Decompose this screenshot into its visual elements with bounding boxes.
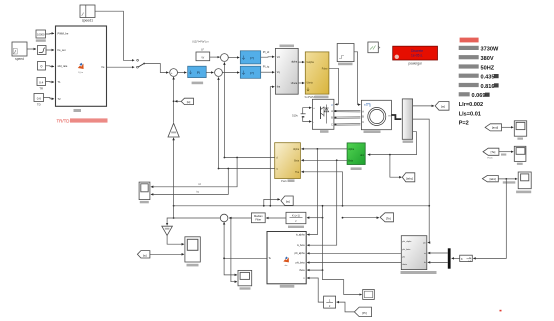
constant 0.4 TR — [37, 78, 46, 91]
svg-text:um: um — [423, 242, 426, 244]
svg-text:phi_beta: phi_beta — [296, 261, 306, 264]
wire sum4 out to left — [167, 218, 220, 225]
wire rate limiter to fre_set — [46, 49, 54, 51]
wire theta branch to display — [323, 270, 362, 295]
wire 0.4 to T1 — [46, 81, 55, 84]
sum junction 3 (id error) — [221, 54, 229, 62]
svg-text:10000: 10000 — [37, 33, 45, 37]
svg-text:[w]: [w] — [286, 200, 290, 204]
svg-text:[w]: [w] — [143, 253, 147, 257]
wire gain down to big scope input1 — [167, 236, 184, 245]
bus selector — [402, 99, 413, 143]
svg-text:is_alpha: is_alpha — [296, 235, 305, 237]
svg-text:Alpha: Alpha — [293, 148, 300, 151]
svg-text:U*: U* — [201, 48, 204, 52]
wire PI to sum2 — [206, 72, 213, 74]
discrete gain block right — [460, 255, 473, 262]
wire iPark beta to SVPWM — [298, 82, 304, 84]
flux observer block bottom right (flipped) — [401, 236, 437, 274]
svg-text:Alpha: Alpha — [348, 148, 355, 151]
svg-text:Ubeta: Ubeta — [291, 82, 298, 85]
display block — [363, 290, 375, 300]
svg-text:C: C — [331, 123, 333, 126]
rate limiter block — [38, 46, 47, 55]
goto tag [iabc] — [402, 173, 415, 182]
goto tag [w] near sum1 — [175, 98, 194, 104]
red annotation TR/TD — [57, 118, 108, 123]
IGBT icon — [320, 107, 322, 120]
svg-text:Lls=0.01: Lls=0.01 — [459, 111, 481, 117]
svg-text:[asd]: [asd] — [492, 126, 498, 130]
svg-text:0: 0 — [41, 65, 43, 69]
wire to goto iabc — [390, 155, 402, 178]
svg-text:+: + — [171, 71, 173, 75]
svg-text:SvPWM: SvPWM — [305, 95, 316, 99]
scope2 torque — [514, 146, 526, 165]
svg-text:Llr=0.002: Llr=0.002 — [459, 102, 483, 108]
wire switch to sum1 — [144, 64, 168, 73]
svg-text:is_beta: is_beta — [297, 244, 305, 247]
wire sum3 to PI d — [228, 57, 239, 59]
svg-text:Park: Park — [281, 179, 287, 183]
wire speed1 to switch input1 — [95, 11, 134, 60]
matlab fcn icon — [78, 63, 84, 69]
svg-text:[iabc]: [iabc] — [490, 177, 497, 181]
current PI controller q (blue) — [240, 66, 260, 78]
svg-text:W: W — [201, 56, 204, 60]
powergui block — [393, 46, 438, 65]
svg-text:TD: TD — [37, 102, 41, 106]
median filter block — [251, 213, 265, 223]
svg-text:U(2)*f=Pla*Lm: U(2)*f=Pla*Lm — [192, 40, 209, 44]
svg-text:[w]: [w] — [441, 105, 445, 109]
wires mux to flux observer — [428, 252, 448, 254]
gain triangle down — [162, 226, 173, 235]
svg-text:Ubeta: Ubeta — [307, 82, 314, 85]
wire flux obs phi_alpha to observer — [307, 252, 401, 254]
SVPWM block (gold) — [305, 52, 329, 99]
wire W to sum3 — [210, 56, 220, 58]
wire bus out2 to flux observer um (right riser) — [413, 119, 430, 243]
S-function block (speed ramp generator) — [56, 26, 107, 112]
park d output to sum3 feedback and id scope — [224, 157, 274, 159]
park q output to sum2 feedback and iq scope — [219, 168, 275, 170]
sum junction 1 (speed error) — [170, 69, 178, 77]
wire iPark alpha to SVPWM — [298, 61, 304, 63]
vertical junction line to sum4 and small scope — [223, 222, 225, 258]
scope id iq (flipped) — [139, 182, 150, 203]
svg-text:[w]: [w] — [187, 100, 191, 104]
svg-text:powergui: powergui — [409, 61, 422, 65]
svg-text:0.6: 0.6 — [37, 96, 42, 100]
wire sum1 to PI — [178, 72, 187, 74]
discrete derivative block (flipped) — [286, 212, 306, 228]
scope1 speed — [514, 121, 526, 140]
gain triangle up (rad to rpm) — [168, 123, 179, 137]
sum junction 2 (iq error) — [215, 69, 223, 77]
svg-text:TR: TR — [39, 87, 43, 91]
svg-text:PI: PI — [250, 71, 254, 75]
svg-text:0.4: 0.4 — [39, 80, 44, 84]
wire iabc junction down to discrete gain — [473, 179, 506, 259]
svg-text:speed: speed — [15, 57, 24, 61]
svg-text:P=2: P=2 — [459, 121, 469, 127]
svg-text:TR/TD: TR/TD — [57, 118, 70, 123]
svg-text:alpha: alpha — [291, 61, 298, 64]
from tag [w] right column — [485, 124, 501, 131]
svg-text:1e-05 s.: 1e-05 s. — [411, 54, 423, 58]
svg-text:dst: dst — [285, 264, 288, 267]
wire theta riser to iPark tha — [270, 87, 274, 206]
DC voltage source 510v — [292, 108, 311, 122]
svg-text:Beta: Beta — [294, 159, 299, 162]
3s-2s transform block (green, flipped) — [347, 143, 365, 170]
svg-text:fre_set: fre_set — [58, 48, 66, 52]
unit delay block — [324, 296, 336, 308]
goto tag [w] — [435, 102, 449, 111]
wire sum2 to PI q — [222, 72, 239, 74]
svg-text:slid_rate: slid_rate — [58, 64, 68, 68]
wire load torque to machine Tm — [354, 52, 360, 105]
svg-text:50HZ: 50HZ — [481, 65, 495, 71]
svg-text:Ualpha: Ualpha — [307, 62, 315, 64]
sum junction 4 (lower) — [220, 214, 228, 222]
fcn block W (flux reference) — [196, 48, 210, 61]
svg-text:PI_id: PI_id — [263, 50, 270, 54]
unconnected source block — [368, 42, 380, 53]
svg-text:0.816: 0.816 — [481, 84, 495, 90]
wire SVPWM pulse to bridge gate — [329, 68, 339, 104]
svg-text:K (z-1): K (z-1) — [292, 214, 300, 218]
constant 0 — [38, 62, 46, 71]
iPark transform block (gray gradient) — [275, 45, 298, 95]
svg-text:[Te]: [Te] — [491, 150, 496, 154]
wire is_alpha tap down to observer — [307, 149, 317, 235]
motor parameter annotation text — [459, 38, 499, 127]
small scope lower middle — [238, 270, 252, 289]
wire green alpha to park alpha — [301, 148, 347, 150]
wire 0.6 to T2 — [44, 98, 55, 99]
wire speed to rate limiter — [27, 48, 36, 50]
svg-text:Beta: Beta — [348, 159, 353, 162]
wire 0 to slid_rate — [46, 65, 55, 68]
svg-text:[Pi]: [Pi] — [362, 311, 367, 315]
wire 10000 to PWM_fre — [46, 32, 55, 35]
wire bus out1 to goto w — [413, 105, 434, 107]
wire tap to derivative input — [307, 217, 323, 219]
svg-text:Discrete: Discrete — [411, 49, 423, 53]
wire sum4 output up into gain triangle — [173, 138, 175, 218]
constant 10000 — [36, 30, 46, 42]
svg-text:[iabc]: [iabc] — [406, 176, 413, 180]
red speck annotation — [500, 310, 502, 312]
from tag [w] lower left — [137, 251, 150, 258]
wire is_beta tap down to observer — [307, 160, 337, 245]
svg-text:m: m — [389, 115, 391, 118]
inverter bridge block — [312, 99, 334, 133]
svg-text:0.069: 0.069 — [472, 93, 486, 99]
wire median to sum4 — [229, 217, 251, 219]
current PI controller d (blue) — [240, 51, 260, 64]
svg-text:510v: 510v — [292, 113, 298, 117]
wire gain to mux — [452, 257, 460, 259]
source block speed1 — [80, 5, 95, 23]
mux bar — [448, 248, 451, 268]
svg-text:PI_iq: PI_iq — [263, 65, 270, 69]
wire theta tap down to observer — [307, 206, 322, 270]
svg-text:Median: Median — [254, 214, 263, 218]
big scope lower left — [185, 237, 200, 267]
svg-text:Ts: Ts — [469, 258, 471, 260]
load torque source block — [337, 44, 354, 66]
wire from Te to scope2 — [499, 151, 513, 153]
goto tag [Te] lower — [380, 213, 393, 222]
asynchronous machine block — [361, 100, 391, 133]
wire from w to scope1 — [502, 126, 514, 128]
Park transform block (gold, flipped) — [275, 143, 301, 183]
speed PI controller (blue) — [188, 66, 207, 84]
svg-text:380V: 380V — [481, 56, 494, 62]
manual switch — [137, 59, 146, 68]
svg-text:phi_alpha: phi_alpha — [402, 241, 412, 243]
wire unit delay to observer n input — [307, 278, 323, 302]
svg-text:3730W: 3730W — [481, 47, 499, 53]
svg-text:theta: theta — [299, 269, 305, 272]
svg-text:Filter: Filter — [255, 218, 261, 222]
svg-text:0.435: 0.435 — [481, 75, 495, 81]
svg-text:phi_beta: phi_beta — [402, 248, 411, 251]
svg-text:-: - — [313, 121, 314, 124]
three-phase wires bridge to machine — [334, 110, 361, 112]
machine bus wire to bus selector — [391, 115, 401, 119]
wire bus out3 to abc measurement line — [368, 132, 417, 155]
svg-text:From: From — [487, 156, 492, 159]
long theta distribution line — [174, 205, 430, 207]
from tag [Pi] — [354, 307, 371, 317]
constant 0.6 TD — [34, 94, 44, 107]
wire from w to big scope input2 — [150, 253, 184, 255]
from tag [Te] right column — [483, 148, 499, 159]
svg-text:Pulse: Pulse — [322, 68, 328, 70]
wire observer Te output to junction — [224, 257, 267, 259]
goto tag [w] mid — [263, 196, 293, 207]
wire flux obs phi_beta to observer — [307, 262, 401, 264]
speed feedback riser to sum1, goto w tap — [173, 77, 175, 123]
wire theta to park tha — [301, 172, 342, 206]
from tag [iabc] right column — [482, 176, 498, 182]
svg-text:PI: PI — [197, 71, 200, 75]
svg-text:[Te]: [Te] — [386, 217, 391, 221]
svg-text:phi_alpha: phi_alpha — [295, 253, 306, 255]
wire from iabc to scope3 — [498, 178, 517, 180]
svg-text:PWM_fre: PWM_fre — [58, 31, 69, 35]
wire green beta to park beta — [301, 159, 347, 161]
svg-text:PI: PI — [250, 56, 254, 60]
wire fre to switch input2 — [107, 66, 135, 68]
torque/speed observer block (flipped s-function) — [267, 232, 306, 288]
svg-text:speed1: speed1 — [82, 19, 93, 23]
wire Pi tag to unit delay — [337, 302, 355, 312]
scope3 stator currents — [516, 172, 531, 193]
wire derivative out to median — [266, 217, 286, 219]
source block speed — [12, 42, 27, 61]
svg-text:C: C — [362, 121, 364, 124]
